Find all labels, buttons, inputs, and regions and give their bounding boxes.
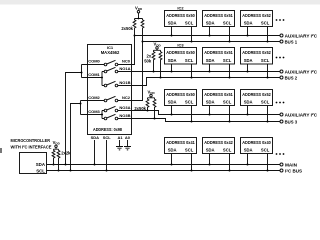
svg-text:SCL: SCL: [223, 147, 232, 152]
resistors 2x2k MCU bus pull-ups: [52, 149, 71, 171]
svg-text:SCL: SCL: [185, 20, 194, 25]
I2C device 0x51 (bus 3): [203, 90, 235, 123]
switch SW2 COM2-NC2: [81, 42, 143, 102]
IC1 MAX4562 analog switch: [88, 45, 132, 140]
svg-text:ADDRESS 0x50: ADDRESS 0x50: [166, 13, 195, 18]
svg-text:ADDRESS 0x52: ADDRESS 0x52: [242, 92, 271, 97]
svg-text:ADDRESS 0x50: ADDRESS 0x50: [166, 50, 195, 55]
node AUXILIARY I2C BUS 2 terminals: [280, 69, 317, 80]
svg-text:A1: A1: [118, 135, 124, 140]
node AUXILIARY I2C BUS 1 terminals: [280, 33, 317, 44]
svg-text:NO3A: NO3A: [119, 105, 130, 110]
ground at A1: [116, 140, 123, 150]
I2C device 0x50 (bus 2): [165, 42, 197, 78]
switch SW3 COM3-NO3A/NO3B: [81, 105, 131, 120]
svg-text:SCL: SCL: [261, 58, 270, 63]
svg-text:MICROCONTROLLER: MICROCONTROLLER: [11, 138, 51, 143]
svg-text:SCL: SCL: [185, 147, 194, 152]
svg-text:ADDRESS 0x51: ADDRESS 0x51: [204, 50, 233, 55]
node: MAIN I2C BUS terminals: [280, 162, 302, 173]
I2C device 0x50 (bus 1): [165, 5, 197, 42]
svg-text:SCL: SCL: [223, 99, 232, 104]
svg-text:NC2: NC2: [122, 95, 131, 100]
svg-text:SCL: SCL: [223, 58, 232, 63]
svg-text:SDA: SDA: [244, 99, 253, 104]
svg-text:ADDRESS 0x41: ADDRESS 0x41: [166, 140, 195, 145]
svg-text:MAX4562: MAX4562: [101, 50, 120, 55]
svg-text:NO3B: NO3B: [119, 113, 130, 118]
svg-text:SDA: SDA: [91, 135, 100, 140]
ellipsis more devices bus 1: [276, 19, 285, 21]
svg-text:IC2: IC2: [177, 5, 184, 10]
svg-text:SDA: SDA: [168, 99, 177, 104]
svg-text:ADDRESS 0x42: ADDRESS 0x42: [204, 140, 233, 145]
svg-text:SCL: SCL: [185, 58, 194, 63]
svg-text:SCL: SCL: [36, 168, 45, 173]
VDD supply for bus 1 pull-ups: [135, 5, 143, 19]
svg-text:BUS 3: BUS 3: [285, 119, 298, 124]
I2C device 0x52 (bus 3): [241, 90, 273, 123]
svg-text:SCL: SCL: [103, 135, 112, 140]
wire: main SCL bus: [47, 170, 281, 172]
svg-text:NO1B: NO1B: [119, 80, 130, 85]
svg-text:ADDRESS 0x52: ADDRESS 0x52: [242, 50, 271, 55]
ground at A0: [124, 140, 131, 150]
wire auxiliary bus 1 SCL: [143, 41, 281, 43]
svg-text:NO1A: NO1A: [119, 66, 130, 71]
svg-text:50k: 50k: [144, 58, 152, 63]
svg-text:NC0: NC0: [122, 59, 131, 64]
page edge mark: [0, 148, 2, 153]
svg-text:BUS 1: BUS 1: [285, 39, 298, 44]
I2C device 0x51 (bus 1): [203, 11, 235, 43]
svg-text:SDA: SDA: [244, 20, 253, 25]
svg-text:SCL: SCL: [185, 99, 194, 104]
svg-text:2x50k: 2x50k: [134, 106, 146, 111]
svg-text:BUS 2: BUS 2: [285, 75, 298, 80]
svg-text:SDA: SDA: [168, 20, 177, 25]
I2C device 0x41 (main bus): [165, 138, 197, 172]
wire: main SDA bus: [47, 164, 281, 166]
VDD supply for bus 3 pull-ups: [148, 89, 156, 97]
svg-text:SDA: SDA: [244, 58, 253, 63]
svg-text:SDA: SDA: [206, 58, 215, 63]
wire auxiliary bus 1 SDA: [135, 35, 281, 37]
svg-text:ADDRESS 0x51: ADDRESS 0x51: [204, 13, 233, 18]
svg-text:COM3: COM3: [88, 109, 100, 114]
VDD supply for MCU pull-ups: [53, 140, 61, 149]
svg-text:COM2: COM2: [88, 95, 100, 100]
I2C device 0x51 (bus 2): [203, 48, 235, 79]
wire: SCL riser from MCU to COM2/COM3: [70, 101, 82, 172]
svg-text:SDA: SDA: [244, 147, 253, 152]
svg-text:SDA: SDA: [206, 99, 215, 104]
I2C device 0x52 (bus 1): [241, 11, 273, 43]
svg-text:SCL: SCL: [261, 20, 270, 25]
I2C device 0x40 (main bus): [241, 138, 273, 172]
I2C device 0x42 (main bus): [203, 138, 235, 172]
ellipsis more devices bus 3: [276, 102, 285, 104]
svg-text:SCL: SCL: [261, 99, 270, 104]
ellipsis more devices main bus: [276, 153, 285, 155]
wire IC1 SCL pin to main bus: [106, 140, 108, 172]
resistors 2x50k bus 1 pull-ups: [121, 19, 144, 43]
svg-text:IC3: IC3: [177, 42, 184, 47]
svg-text:SDA: SDA: [36, 162, 46, 167]
VDD supply for bus 2 pull-ups: [154, 42, 162, 51]
wire NO3A to auxiliary bus 3 SDA: [118, 111, 280, 115]
wire: SDA riser from MCU to COM0/COM1: [65, 65, 83, 166]
microcontroller with I2C interface: [11, 138, 52, 174]
svg-text:ADDRESS: 0x98: ADDRESS: 0x98: [93, 127, 123, 132]
ellipsis more devices bus 2: [276, 57, 285, 59]
svg-text:ADDRESS 0x50: ADDRESS 0x50: [166, 92, 195, 97]
svg-text:2x50k: 2x50k: [121, 26, 133, 31]
svg-text:SDA: SDA: [168, 58, 177, 63]
svg-text:MAIN: MAIN: [285, 162, 297, 167]
svg-text:SDA: SDA: [206, 147, 215, 152]
resistors 2x50k bus 3 pull-ups: [134, 98, 156, 120]
svg-text:ADDRESS 0x51: ADDRESS 0x51: [204, 92, 233, 97]
I2C device 0x50 (bus 3): [165, 90, 197, 123]
wire NO3B to auxiliary bus 3 SCL: [118, 119, 280, 122]
svg-text:SCL: SCL: [223, 20, 232, 25]
resistors 2x50k bus 2 pull-ups: [144, 50, 162, 78]
svg-text:COM0: COM0: [88, 59, 100, 64]
svg-text:SDA: SDA: [168, 147, 177, 152]
wire IC1 SDA pin to main bus: [94, 140, 96, 166]
svg-text:ADDRESS 0x52: ADDRESS 0x52: [242, 13, 271, 18]
switch SW0 COM0-NC0: [82, 36, 135, 66]
wire NO1A = auxiliary bus 2 SDA: [118, 71, 280, 73]
svg-text:SCL: SCL: [261, 147, 270, 152]
svg-text:SDA: SDA: [206, 20, 215, 25]
svg-text:ADDRESS 0x40: ADDRESS 0x40: [242, 140, 271, 145]
svg-text:WITH I²C INTERFACE: WITH I²C INTERFACE: [11, 145, 52, 150]
I2C device 0x52 (bus 2): [241, 48, 273, 79]
node AUXILIARY I2C BUS 3 terminals: [280, 112, 317, 124]
svg-text:COM1: COM1: [88, 72, 100, 77]
svg-text:2x2k: 2x2k: [61, 150, 71, 155]
switch SW1 COM1-NO1A/NO1B: [82, 66, 131, 87]
svg-text:I2C BUS: I2C BUS: [285, 168, 302, 173]
wire NO1B to auxiliary bus 2 SCL: [118, 78, 280, 86]
svg-text:A0: A0: [125, 135, 131, 140]
